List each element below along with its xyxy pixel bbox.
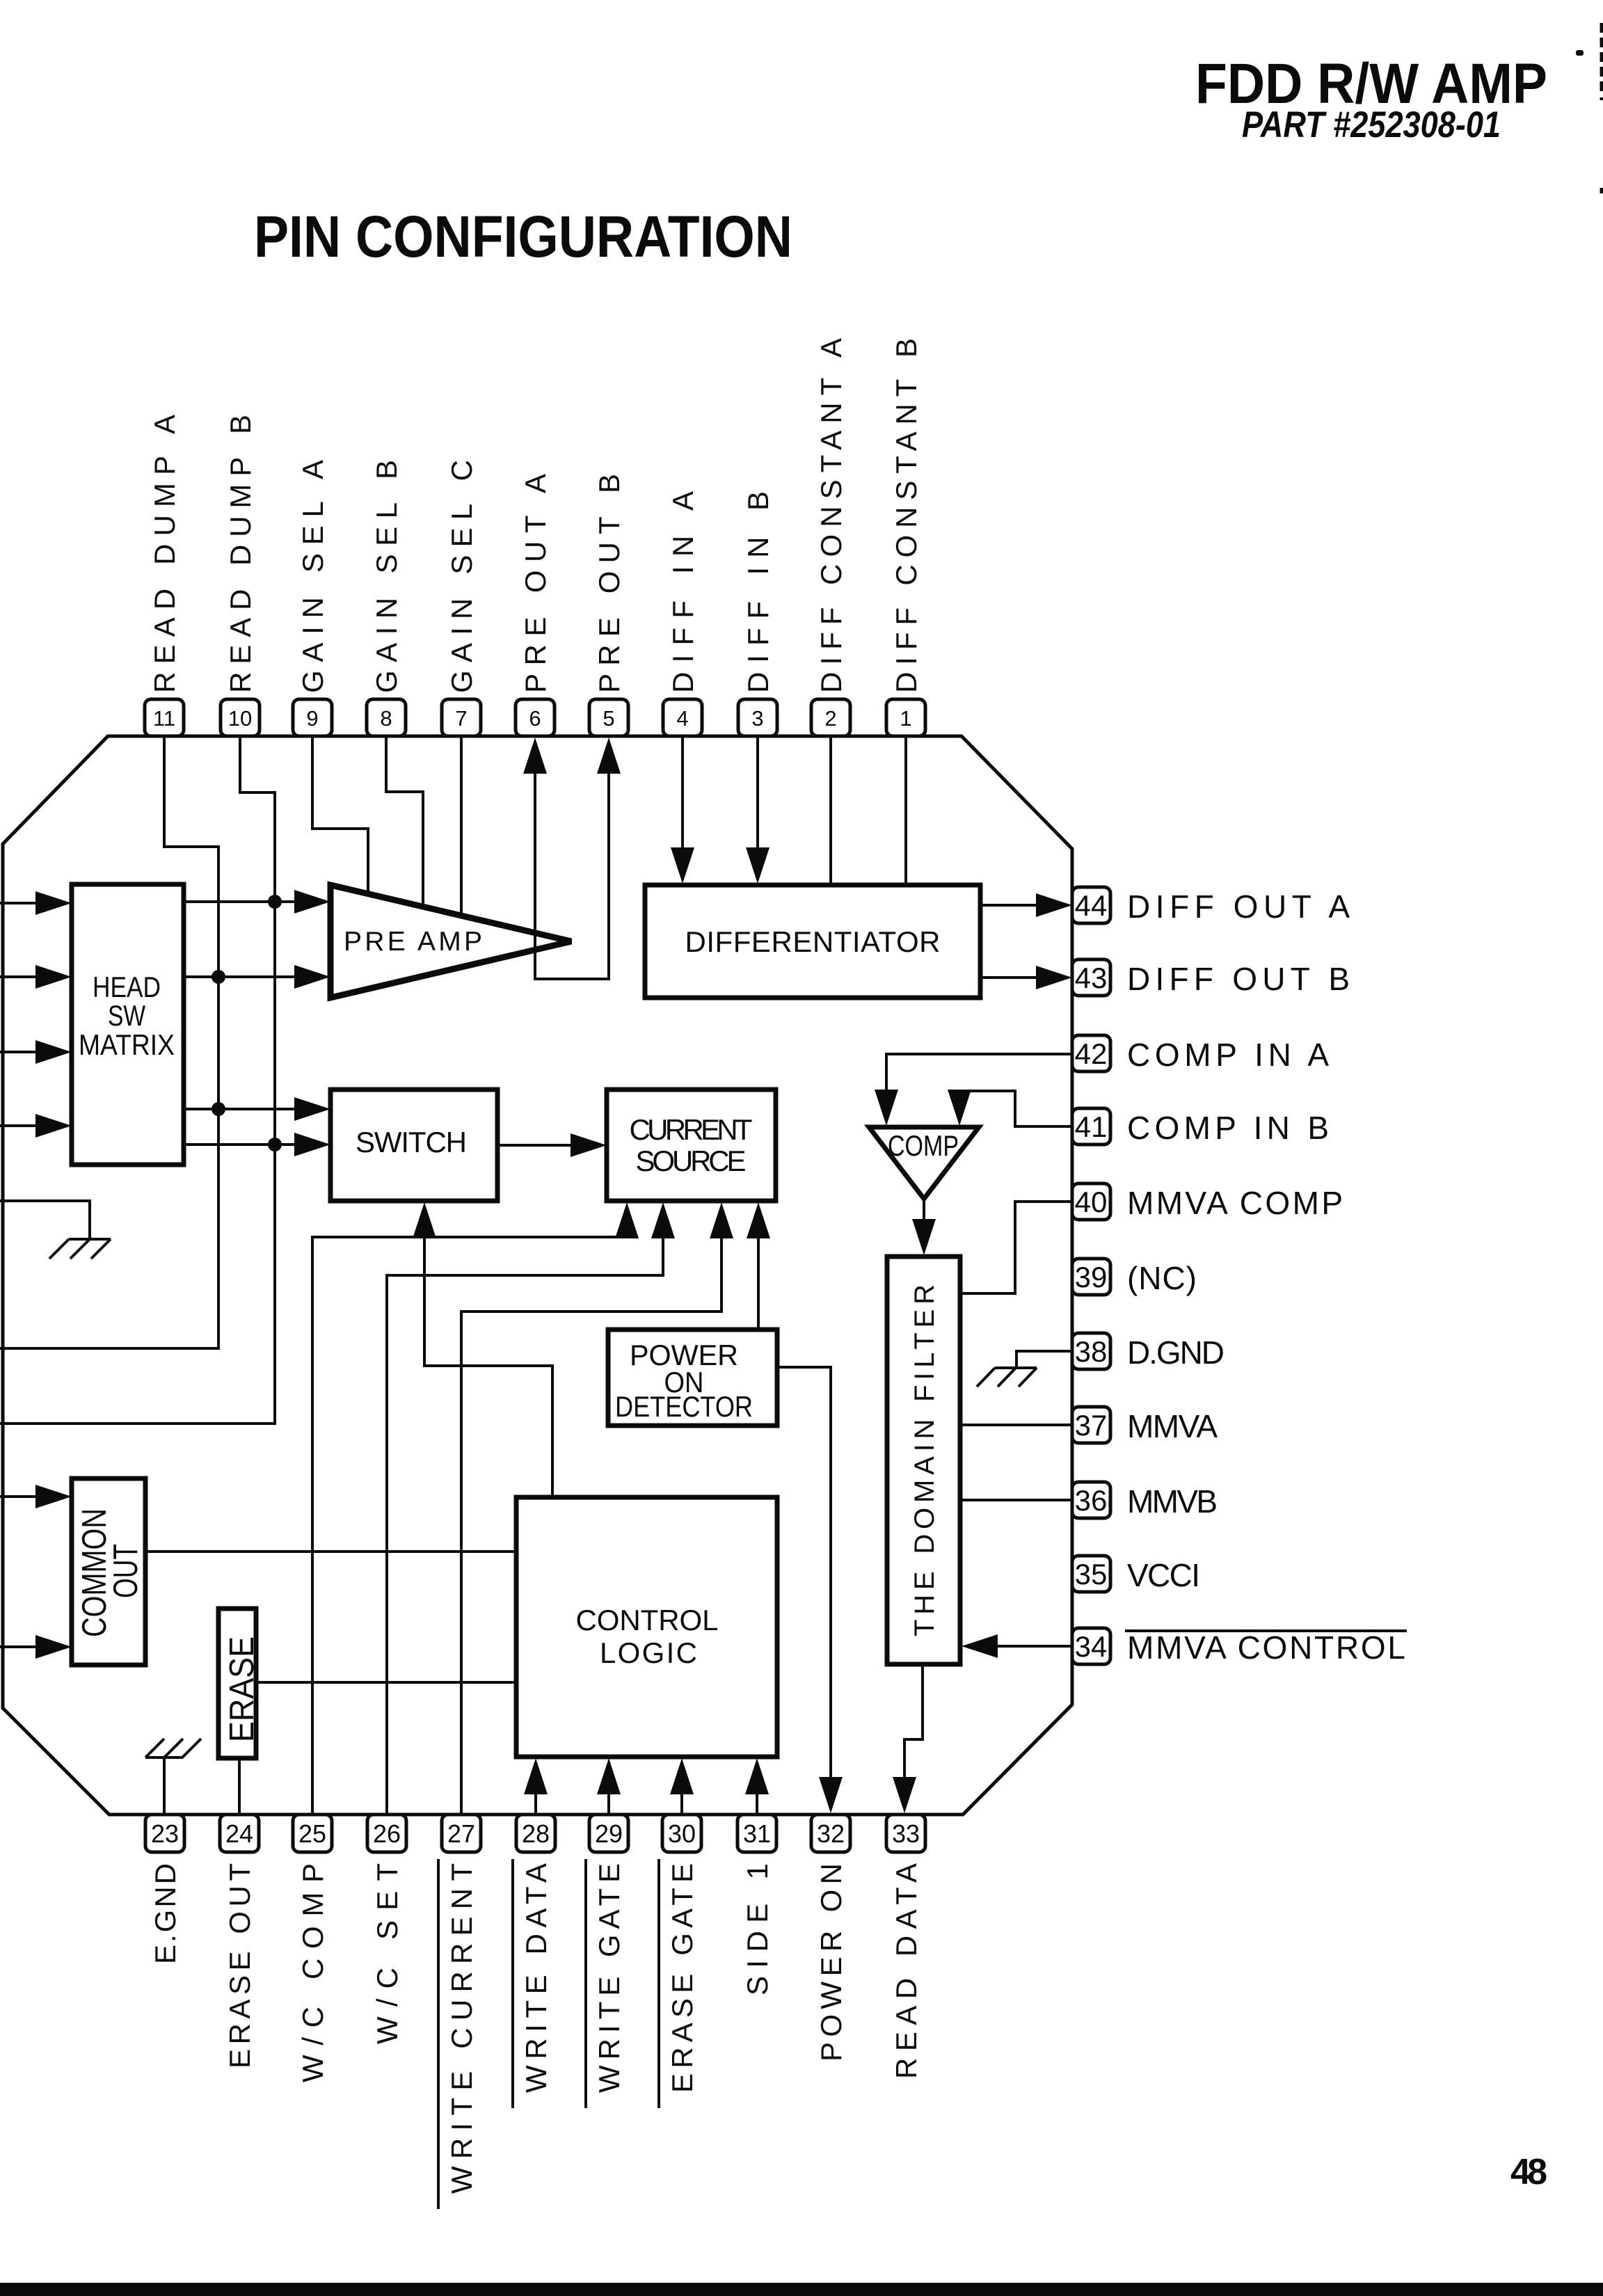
svg-text:OUT: OUT	[107, 1544, 145, 1598]
op-amp: COMP comparator triangle	[869, 1127, 979, 1199]
svg-text:1: 1	[900, 706, 911, 731]
svg-text:7: 7	[455, 706, 467, 731]
pin 29 (WRITE GATE)	[586, 1815, 628, 2108]
pin 35 (VCCI)	[1072, 1556, 1200, 1593]
svg-text:ERASE: ERASE	[223, 1636, 261, 1742]
pin 36 (MMVB)	[1072, 1482, 1218, 1520]
wire: matrix area ground from page left	[0, 1201, 90, 1238]
svg-text:DIFF CONSTANT B: DIFF CONSTANT B	[890, 338, 923, 693]
svg-text:27: 27	[447, 1819, 475, 1848]
svg-text:DIFF OUT A: DIFF OUT A	[1127, 888, 1350, 925]
svg-text:E.GND: E.GND	[149, 1863, 182, 1964]
block: DIFFERENTIATOR	[645, 885, 980, 998]
wire: pin 24 ERASE OUT to ERASE block	[238, 1758, 241, 1815]
svg-text:43: 43	[1075, 962, 1108, 994]
svg-text:MATRIX: MATRIX	[79, 1028, 175, 1061]
svg-text:42: 42	[1075, 1037, 1108, 1070]
svg-text:PART #252308-01: PART #252308-01	[1242, 104, 1501, 145]
svg-text:DIFFERENTIATOR: DIFFERENTIATOR	[685, 925, 941, 958]
svg-text:5: 5	[603, 706, 614, 731]
svg-text:MMVB: MMVB	[1127, 1483, 1218, 1520]
block: PRE AMP (amplifier triangle)	[330, 885, 571, 998]
svg-text:9: 9	[306, 706, 318, 731]
wire: POWER ON DETECTOR to pin 32 POWER ON	[777, 1367, 831, 1781]
svg-text:DIFF CONSTANT A: DIFF CONSTANT A	[815, 338, 847, 693]
wire: matrix to PRE AMP input B	[184, 975, 299, 978]
svg-text:2: 2	[824, 706, 836, 731]
svg-text:30: 30	[668, 1819, 696, 1848]
svg-text:44: 44	[1075, 889, 1108, 922]
svg-text:THE DOMAIN FILTER: THE DOMAIN FILTER	[909, 1284, 940, 1636]
pin 7 (GAIN SEL C)	[442, 460, 481, 736]
wire: matrix to PRE AMP input A	[184, 900, 299, 903]
wire: pin 31 SIDE 1 into CONTROL LOGIC	[756, 1789, 758, 1815]
svg-text:39: 39	[1075, 1261, 1108, 1293]
junction dot pin10 bus / switch input B	[268, 1138, 282, 1151]
pin 3 (DIFF IN B)	[738, 491, 777, 736]
svg-text:CONTROL: CONTROL	[576, 1604, 719, 1636]
wire: ERASE to CONTROL LOGIC	[256, 1681, 516, 1684]
svg-text:POWER ON: POWER ON	[815, 1863, 847, 2062]
wire: pin 25 W/C COMP to CURRENT SOURCE	[312, 1234, 627, 1815]
wire: pin 37 MMVA to THE DOMAIN FILTER	[960, 1424, 1072, 1426]
pin 4 (DIFF IN A)	[663, 491, 702, 736]
pin 26 (W/C SET)	[367, 1815, 406, 2044]
wire: PRE AMP outputs to pins 6 and 5	[535, 769, 609, 979]
wire: POWER ON DETECTOR to CURRENT SOURCE	[757, 1233, 760, 1330]
wire: pin 2 DIFF CONSTANT A to DIFFERENTIATOR	[829, 736, 832, 885]
pin 31 (SIDE 1)	[737, 1815, 776, 1995]
svg-text:CURRENT: CURRENT	[630, 1113, 753, 1146]
wire: pin 40 MMVA COMP to THE DOMAIN FILTER	[960, 1202, 1072, 1293]
wire: COMMON OUT to CONTROL LOGIC	[145, 1550, 516, 1553]
svg-text:8: 8	[380, 706, 392, 731]
wire: pin 23 E.GND to ground	[163, 1757, 166, 1815]
wire: pin 30 ERASE GATE into CONTROL LOGIC	[680, 1789, 683, 1815]
wire: pin 27 WRITE CURRENT to CURRENT SOURCE	[461, 1234, 721, 1815]
svg-text:29: 29	[595, 1819, 623, 1848]
svg-text:ERASE GATE: ERASE GATE	[666, 1863, 699, 2093]
svg-text:26: 26	[373, 1819, 401, 1848]
wire: pin 3 DIFF IN B into DIFFERENTIATOR	[756, 736, 759, 853]
block: SWITCH	[330, 1090, 497, 1201]
junction dot pin10 bus / preamp input A	[268, 895, 282, 909]
pin 10 (READ DUMP B)	[221, 415, 260, 736]
svg-text:23: 23	[151, 1819, 179, 1848]
svg-text:28: 28	[522, 1819, 550, 1848]
svg-text:4: 4	[676, 706, 688, 731]
svg-text:PIN CONFIGURATION: PIN CONFIGURATION	[254, 204, 792, 269]
pin 25 (W/C COMP)	[293, 1815, 332, 2082]
svg-text:COMP IN B: COMP IN B	[1127, 1110, 1329, 1146]
svg-text:ERASE OUT: ERASE OUT	[223, 1863, 256, 2068]
wire: pin 10 to preamp/switch bus, exits page left	[0, 736, 275, 1424]
wire: pin 34 MMVA CONTROL into THE DOMAIN FILTER	[992, 1645, 1072, 1648]
pin 33 (READ DATA)	[886, 1815, 925, 2079]
svg-text:(NC): (NC)	[1127, 1260, 1197, 1296]
svg-text:34: 34	[1075, 1630, 1108, 1663]
pin 32 (POWER ON)	[811, 1815, 850, 2062]
svg-text:37: 37	[1075, 1409, 1108, 1442]
svg-text:MMVA COMP: MMVA COMP	[1127, 1185, 1343, 1221]
scan artifact: broken line at right page edge	[1600, 23, 1603, 193]
pin 1 (DIFF CONSTANT B)	[886, 338, 925, 736]
svg-text:33: 33	[892, 1819, 920, 1848]
svg-text:COMP IN A: COMP IN A	[1127, 1037, 1329, 1073]
wire: pin 38 D.GND to ground	[1016, 1351, 1072, 1366]
wires: head inputs into HEAD SW MATRIX from page left	[0, 902, 40, 904]
svg-text:11: 11	[153, 706, 175, 731]
pin 11 (READ DUMP A)	[145, 415, 184, 736]
wire: pin 26 W/C SET to CURRENT SOURCE	[387, 1234, 663, 1815]
wire: pin 9 GAIN SEL A into PRE AMP	[312, 736, 368, 895]
pin 24 (ERASE OUT)	[220, 1815, 259, 2068]
svg-text:DETECTOR: DETECTOR	[615, 1390, 753, 1423]
pin 2 (DIFF CONSTANT A)	[811, 338, 850, 736]
block: CONTROL LOGIC	[516, 1497, 777, 1757]
svg-text:3: 3	[751, 706, 763, 731]
svg-text:SW: SW	[108, 999, 145, 1032]
pin 30 (ERASE GATE)	[659, 1815, 701, 2108]
svg-text:SWITCH: SWITCH	[356, 1126, 467, 1158]
wire: pin 42 COMP IN A into COMP	[886, 1054, 1072, 1095]
svg-text:READ DATA: READ DATA	[890, 1863, 923, 2079]
svg-text:HEAD: HEAD	[93, 971, 161, 1003]
svg-text:38: 38	[1075, 1335, 1108, 1368]
svg-text:41: 41	[1075, 1110, 1108, 1143]
pin 44 (DIFF OUT A)	[1072, 887, 1350, 925]
block: THE DOMAIN FILTER	[887, 1257, 960, 1664]
wire: pin 8 GAIN SEL B into PRE AMP	[386, 736, 423, 907]
wire: pin 7 GAIN SEL C into PRE AMP	[460, 736, 463, 916]
wire: pin 11 to preamp/switch bus, exits page left	[0, 736, 218, 1348]
junction dot pin11 bus / preamp input B	[212, 970, 225, 984]
scan speck top right	[1576, 50, 1584, 56]
pin 9 (GAIN SEL A)	[293, 460, 332, 736]
pin 40 (MMVA COMP)	[1072, 1183, 1343, 1221]
svg-text:36: 36	[1075, 1484, 1108, 1517]
svg-text:24: 24	[225, 1819, 253, 1848]
pin 43 (DIFF OUT B)	[1072, 959, 1350, 997]
svg-text:25: 25	[298, 1819, 326, 1848]
wires: COMMON OUT inputs from page left	[0, 1495, 40, 1498]
svg-text:MMVA: MMVA	[1127, 1408, 1218, 1444]
svg-text:DIFF IN B: DIFF IN B	[742, 491, 774, 693]
junction dot pin11 bus / switch input A	[212, 1102, 225, 1116]
wire: pin 4 DIFF IN A into DIFFERENTIATOR	[681, 736, 684, 853]
wire: pin 29 WRITE GATE into CONTROL LOGIC	[607, 1789, 610, 1815]
svg-text:SOURCE: SOURCE	[636, 1145, 747, 1177]
pin 6 (PRE OUT A)	[516, 474, 555, 736]
pin 27 (WRITE CURRENT)	[438, 1815, 481, 2209]
svg-text:35: 35	[1075, 1558, 1108, 1591]
wire: pin 41 COMP IN B into COMP	[959, 1091, 1072, 1126]
svg-text:32: 32	[817, 1819, 845, 1848]
ground symbol near HEAD SW MATRIX	[49, 1239, 111, 1259]
block: CURRENT SOURCE	[607, 1090, 776, 1201]
svg-text:VCCI: VCCI	[1127, 1557, 1200, 1593]
wire: pin 36 MMVB to THE DOMAIN FILTER	[960, 1499, 1072, 1501]
wire: COMP output into THE DOMAIN FILTER	[923, 1199, 925, 1225]
ground symbol at pin 38	[977, 1368, 1037, 1387]
svg-text:MMVA CONTROL: MMVA CONTROL	[1127, 1629, 1405, 1666]
ground symbol at pin 23	[145, 1739, 201, 1757]
svg-text:WRITE GATE: WRITE GATE	[593, 1863, 625, 2093]
wire: pin 28 WRITE DATA into CONTROL LOGIC	[534, 1789, 537, 1815]
svg-text:DIFF OUT B: DIFF OUT B	[1127, 961, 1350, 997]
svg-text:40: 40	[1075, 1186, 1108, 1218]
svg-text:READ DUMP A: READ DUMP A	[148, 415, 181, 693]
IC body outline (octagon, left side cut off at page edge)	[3, 736, 1072, 1815]
pin 8 (GAIN SEL B)	[367, 460, 406, 736]
svg-text:COMP: COMP	[888, 1129, 959, 1162]
svg-text:D.GND: D.GND	[1127, 1334, 1225, 1371]
block: COMMON OUT	[72, 1478, 145, 1665]
wire: THE DOMAIN FILTER output to pin 33 READ DATA	[904, 1664, 923, 1781]
pin 41 (COMP IN B)	[1072, 1108, 1329, 1146]
svg-text:6: 6	[529, 706, 541, 731]
pin 34 (MMVA CONTROL)	[1072, 1628, 1407, 1666]
wire: DIFFERENTIATOR out B to pin 43	[980, 976, 1041, 979]
svg-text:48: 48	[1510, 2152, 1547, 2192]
block: POWER ON DETECTOR	[608, 1330, 777, 1426]
wire: pin 1 DIFF CONSTANT B to DIFFERENTIATOR	[904, 736, 907, 885]
svg-text:PRE OUT B: PRE OUT B	[593, 474, 625, 693]
pin 23 (E.GND)	[145, 1815, 184, 1964]
svg-text:10: 10	[228, 706, 252, 731]
wire: CONTROL LOGIC to SWITCH	[424, 1234, 552, 1497]
wire: matrix to SWITCH input A	[184, 1108, 299, 1110]
pin 5 (PRE OUT B)	[589, 474, 628, 736]
pin 37 (MMVA)	[1072, 1407, 1218, 1444]
wire: DIFFERENTIATOR out A to pin 44	[980, 904, 1041, 907]
svg-text:PRE OUT A: PRE OUT A	[519, 474, 552, 693]
wire: SWITCH to CURRENT SOURCE	[497, 1144, 575, 1147]
wire: matrix to SWITCH input B	[184, 1143, 299, 1146]
svg-text:31: 31	[743, 1819, 771, 1848]
svg-text:WRITE DATA: WRITE DATA	[520, 1863, 552, 2093]
block: ERASE	[218, 1609, 261, 1758]
block: HEAD SW MATRIX	[72, 884, 184, 1165]
pin 28 (WRITE DATA)	[513, 1815, 555, 2108]
pin 39 ((NC))	[1072, 1259, 1197, 1296]
bottom black bar	[0, 2283, 1603, 2296]
pin 42 (COMP IN A)	[1072, 1035, 1329, 1073]
pin 38 (D.GND)	[1072, 1333, 1225, 1371]
svg-text:LOGIC: LOGIC	[600, 1636, 697, 1669]
